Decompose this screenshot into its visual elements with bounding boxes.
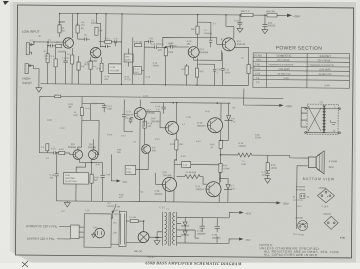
svg-text:EXPORT 220 V PNL: EXPORT 220 V PNL <box>27 237 55 241</box>
svg-text:10/25: 10/25 <box>224 72 230 74</box>
transformer T2 power output <box>305 100 341 134</box>
svg-text:C-2-2: C-2-2 <box>159 207 165 209</box>
svg-text:10/25: 10/25 <box>126 172 132 174</box>
diode D8 <box>225 103 233 128</box>
wire tone to Q3 <box>144 42 166 48</box>
wire input node <box>34 42 59 46</box>
diode D9 <box>219 178 232 202</box>
capacitor C32 .022 <box>265 171 269 179</box>
wire ground bus power amp <box>56 167 133 202</box>
capacitor C16b 250 <box>54 153 59 201</box>
svg-text:R-46 4Ω6: R-46 4Ω6 <box>187 172 197 174</box>
svg-text:20-380 V DC: 20-380 V DC <box>318 74 332 76</box>
svg-text:C-3B: C-3B <box>154 191 159 193</box>
ground <box>154 232 162 245</box>
wire +35V feed from preamp rail <box>244 89 263 106</box>
fuse F1 <box>126 220 130 222</box>
svg-text:500/35: 500/35 <box>91 23 98 25</box>
svg-text:INPUT: INPUT <box>22 81 32 85</box>
capacitor C19 hydra <box>197 22 212 47</box>
capacitor C35 2000/50 <box>214 218 219 244</box>
svg-text:.47/2W: .47/2W <box>223 168 231 170</box>
svg-text:B): B) <box>307 197 309 199</box>
resistor R50 factory selected box <box>64 172 89 184</box>
resistor R30 <box>196 26 199 34</box>
resistor R16 <box>100 63 103 71</box>
capacitor C1Z 10/25 box <box>125 165 136 174</box>
svg-text:22/2W: 22/2W <box>255 137 261 139</box>
svg-text:94R: 94R <box>74 115 78 117</box>
transistor Q3 2N4058 <box>188 47 199 58</box>
resistor R48 <box>46 144 49 151</box>
svg-text:R-47: R-47 <box>223 165 229 167</box>
resistor R37 1.5 in rail <box>241 13 253 17</box>
resistor R38 5W in rail <box>267 14 277 17</box>
svg-text:68K: 68K <box>68 107 72 109</box>
transistor Q6 2N5088 <box>88 150 98 160</box>
wire -35V bottom rail <box>133 120 277 203</box>
svg-text:2N6254: 2N6254 <box>197 125 206 128</box>
svg-text:650B BASS AMPLIFIER SCHEMATIC: 650B BASS AMPLIFIER SCHEMATIC DIAGRAM <box>145 260 241 266</box>
svg-text:C-20: C-20 <box>216 69 222 71</box>
resistor R42 .47 <box>219 140 222 148</box>
svg-text:TIP-36B: TIP-36B <box>163 174 172 177</box>
svg-text:(FACTORY: (FACTORY <box>65 177 76 180</box>
wire +35V top supply rail <box>60 13 287 15</box>
resistor R41 current source <box>78 97 104 150</box>
svg-text:(22A QMP): (22A QMP) <box>320 68 332 71</box>
capacitor C6 <box>63 52 68 84</box>
svg-text:22Ω/2W: 22Ω/2W <box>239 146 247 148</box>
wire supply outputs <box>229 212 239 218</box>
resistor R31 <box>185 66 188 75</box>
svg-text:2N5296: 2N5296 <box>151 120 160 123</box>
svg-text:R-17 50K: R-17 50K <box>134 42 143 44</box>
svg-text:T-40A/9NRG-2.5 9/4W/2T9L: T-40A/9NRG-2.5 9/4W/2T9L <box>268 63 295 66</box>
svg-text:(25A QMP): (25A QMP) <box>279 68 291 71</box>
capacitor C24 500/35 <box>262 15 267 30</box>
wire +35V to transformer <box>262 104 279 106</box>
resistor R4 1M <box>58 25 61 33</box>
wire Q1 collector up <box>72 14 77 39</box>
svg-text:1N34HS: 1N34HS <box>204 33 213 35</box>
registration arrow top-left <box>3 1 9 5</box>
svg-text:C-10: C-10 <box>51 148 57 150</box>
svg-text:-35V: -35V <box>245 238 251 242</box>
svg-text:+10 (2A): +10 (2A) <box>106 205 114 208</box>
bridge rectifier D1 <box>138 232 149 243</box>
connector panel P2 <box>71 225 80 239</box>
resistor R16b 680 <box>143 121 146 128</box>
resistor R2 1M <box>46 54 49 63</box>
svg-text:BOTTOM VIEW: BOTTOM VIEW <box>303 177 335 181</box>
svg-text:VOLUME: VOLUME <box>110 70 120 72</box>
svg-text:MAX: MAX <box>125 55 130 58</box>
resistor R19 1K <box>59 151 65 154</box>
svg-text:+35V: +35V <box>285 104 292 108</box>
svg-text:20-180 V AC: 20-180 V AC <box>277 73 290 76</box>
resistor R40 150 <box>175 140 178 150</box>
svg-text:GWT: GWT <box>114 214 120 216</box>
wire Q4 output right <box>235 47 249 64</box>
capacitor C24b 0.1 <box>161 103 165 114</box>
transformer T2 power <box>162 209 176 246</box>
svg-text:680/4R0: 680/4R0 <box>154 194 163 196</box>
svg-text:2N6254: 2N6254 <box>195 188 204 191</box>
svg-text:T-90: T-90 <box>255 64 260 66</box>
capacitor C21 <box>221 52 225 85</box>
svg-text:2N5088: 2N5088 <box>58 50 67 53</box>
voltage selector block <box>119 211 126 246</box>
transistor Q4 2N4248 <box>222 38 235 51</box>
value label scatter <box>43 20 262 215</box>
wire panel leads <box>57 226 71 239</box>
svg-text:1M: 1M <box>61 31 64 33</box>
wire Q2 collector <box>96 14 106 48</box>
capacitor C1Y 100/25 <box>129 118 133 124</box>
capacitor C34 2000/50 <box>200 218 205 233</box>
svg-text:1M: 1M <box>45 58 48 60</box>
svg-text:PT.NO: PT.NO <box>254 53 262 57</box>
wire plug to switch <box>111 212 119 244</box>
resistor R33 <box>247 65 250 74</box>
wire Q6 base network <box>98 120 99 155</box>
svg-text:(C-21): (C-21) <box>124 79 130 81</box>
ground <box>262 30 268 34</box>
wire Q3 emitter to Q4 base <box>194 38 222 64</box>
resistor R28 1500 <box>164 48 167 56</box>
svg-text:SPK: SPK <box>329 165 334 169</box>
resistor R17 50K <box>135 44 142 47</box>
svg-text:R3 68K: R3 68K <box>56 42 64 44</box>
resistor R10 <box>89 61 92 69</box>
transistor Q7 TIP35 <box>134 108 146 120</box>
svg-text:2-AG: 2-AG <box>283 77 289 80</box>
svg-text:DOMESTIC 120 V PNL: DOMESTIC 120 V PNL <box>26 224 58 228</box>
capacitor C8 <box>106 45 111 48</box>
resistor R3 <box>56 44 62 47</box>
svg-text:2N4058: 2N4058 <box>200 51 209 54</box>
wire speaker return <box>296 166 308 229</box>
resistor R8 <box>77 62 80 70</box>
svg-text:1M: 1M <box>58 24 61 26</box>
resistor R52 820 <box>90 174 93 183</box>
svg-text:A-10: A-10 <box>255 68 261 71</box>
svg-text:400 /3C: 400 /3C <box>134 250 143 253</box>
svg-text:+35V: +35V <box>122 181 128 184</box>
resistor R34 10 ohm <box>267 155 269 162</box>
svg-text:2N4248: 2N4248 <box>237 43 246 46</box>
svg-text:C-35: C-35 <box>212 235 218 237</box>
wire Q3 collector up <box>196 15 198 47</box>
svg-text:+40 /3C: +40 /3C <box>147 257 155 259</box>
svg-text:R-12: R-12 <box>105 38 111 40</box>
diode D3 <box>181 226 189 243</box>
svg-text:R-40: R-40 <box>170 144 176 146</box>
wire rail drop to Q1 <box>59 13 65 37</box>
svg-text:100/470: 100/470 <box>169 45 177 47</box>
svg-text:BASS: BASS <box>125 58 131 61</box>
transistor Q9 driver lower <box>162 177 176 191</box>
capacitor C10 47 <box>54 151 59 154</box>
diode D2 <box>181 217 189 226</box>
svg-text:TIP35B: TIP35B <box>147 112 155 115</box>
svg-text:R-1Y: R-1Y <box>129 119 134 121</box>
svg-text:(OFF): (OFF) <box>114 210 120 212</box>
svg-text:S-2-2: S-2-2 <box>293 234 299 236</box>
speaker SP1 <box>308 157 316 168</box>
svg-text:F-1 3A: F-1 3A <box>129 216 136 219</box>
svg-text:EXPORT: EXPORT <box>320 54 332 58</box>
svg-text:-35V: -35V <box>282 202 288 206</box>
resistor R37b in amp rail <box>55 95 61 98</box>
wire bias arrow +35V <box>111 154 117 181</box>
svg-text:+35V: +35V <box>293 14 300 18</box>
svg-text:C-21: C-21 <box>225 69 231 71</box>
potentiometer R18 volume <box>109 64 122 74</box>
resistor R7 <box>71 55 74 64</box>
potentiometer R23 mid <box>133 67 141 75</box>
resistor R44 270 <box>219 163 222 172</box>
wire output node <box>220 128 228 182</box>
wire rail drops tone area <box>99 14 122 64</box>
wire signal feed from preamp <box>39 152 53 154</box>
svg-text:LOW INPUT: LOW INPUT <box>22 30 40 34</box>
svg-text:2N6254: 2N6254 <box>323 214 331 216</box>
jack J1 low input <box>26 43 29 55</box>
svg-text:2N5088: 2N5088 <box>88 147 97 149</box>
svg-text:C-23: C-23 <box>234 20 240 22</box>
transistor Q2 2N5088 <box>90 47 100 57</box>
svg-text:E-30: E-30 <box>299 234 304 236</box>
capacitor C5 <box>77 37 89 40</box>
capacitor C9 <box>115 40 117 43</box>
svg-text:C-15 100/470: C-15 100/470 <box>151 44 164 46</box>
capacitor C20 <box>197 64 216 85</box>
wire Q4 collector up <box>226 15 234 39</box>
svg-text:C-7B: C-7B <box>105 174 110 176</box>
svg-text:2-0-3: 2-0-3 <box>296 206 302 208</box>
svg-text:10ΩW: 10ΩW <box>271 168 278 170</box>
svg-text:+35V: +35V <box>245 211 251 215</box>
svg-text:(C-1 B-1): (C-1 B-1) <box>293 200 302 202</box>
svg-text:120 V 60HzL: 120 V 60HzL <box>277 60 291 62</box>
capacitor C15 100/470 <box>151 45 161 48</box>
svg-text:T-40A/9NRG-2.5 9/4W/2T9L: T-40A/9NRG-2.5 9/4W/2T9L <box>308 64 335 67</box>
svg-text:C-28: C-28 <box>255 73 261 75</box>
transistor Q11 2N6254 <box>206 182 221 197</box>
potentiometer R21 max bass <box>124 54 133 62</box>
svg-text:R-42: R-42 <box>210 144 216 146</box>
svg-text:C-1Y: C-1Y <box>121 135 126 137</box>
svg-text:ON: ON <box>117 206 121 208</box>
svg-text:C-1Z: C-1Z <box>126 168 131 170</box>
svg-text:DOMESTIC: DOMESTIC <box>277 54 292 58</box>
svg-text:100/25: 100/25 <box>153 65 160 67</box>
svg-text:SELECTED): SELECTED) <box>65 181 77 183</box>
capacitor C16 <box>149 40 154 43</box>
svg-text:2000/50: 2000/50 <box>212 238 221 240</box>
svg-text:POWER SECTION: POWER SECTION <box>276 45 323 51</box>
plug P1 enclosure <box>84 214 111 248</box>
svg-text:GB-1: GB-1 <box>256 60 262 62</box>
plug P1 <box>95 228 105 238</box>
capacitor C18 <box>166 45 189 48</box>
resistor R32 <box>195 68 198 77</box>
svg-text:250/25: 250/25 <box>126 114 133 116</box>
ground <box>64 201 70 207</box>
svg-text:68K: 68K <box>187 44 191 46</box>
svg-text:C-1B: C-1B <box>110 67 116 69</box>
svg-text:2-AG: 2-AG <box>324 84 330 87</box>
svg-text:R-34: R-34 <box>271 165 277 167</box>
jack J2 high input <box>25 64 28 74</box>
ground <box>237 28 243 32</box>
svg-text:C-24: C-24 <box>155 106 161 108</box>
transistor Q10 2N6254 <box>207 118 222 133</box>
svg-text:C-17: C-17 <box>126 111 132 113</box>
svg-text:2000/50: 2000/50 <box>197 234 206 236</box>
svg-text:C-1W: C-1W <box>107 134 112 136</box>
wire transformer T2 primary stubs <box>301 108 307 128</box>
svg-text:(.1): (.1) <box>156 109 160 111</box>
svg-text:ALL CAPACITORS ARE IN MFD.: ALL CAPACITORS ARE IN MFD. <box>264 253 319 257</box>
svg-text:E-30: E-30 <box>340 238 345 240</box>
transistor Q12 VAS <box>142 145 151 154</box>
wire secondary taps <box>177 217 230 243</box>
POWER SECTION table grid <box>253 53 350 88</box>
svg-text:GMT: GMT <box>134 72 139 74</box>
svg-text:C-1B-3: C-1B-3 <box>321 206 329 208</box>
svg-text:500/35: 500/35 <box>268 24 276 27</box>
capacitor C1 <box>51 44 56 47</box>
svg-text:C-32: C-32 <box>262 172 268 174</box>
wire bridge to transformer <box>126 237 162 243</box>
resistor R12 <box>105 40 112 43</box>
svg-text:7-5: 7-5 <box>319 100 323 104</box>
svg-text:HIGH: HIGH <box>22 77 31 81</box>
capacitor C14 1000 <box>102 104 106 113</box>
capacitor C23 500/35 <box>237 15 242 29</box>
svg-text:R-19: R-19 <box>59 149 65 151</box>
svg-text:R38 5W: R38 5W <box>266 10 275 13</box>
resistor R6 <box>54 59 57 67</box>
capacitor T-22 box <box>182 161 191 167</box>
wire power amp top rail <box>39 96 283 155</box>
capacitor C17 250/25 <box>122 99 133 131</box>
svg-text:220 V 50HzL: 220 V 50HzL <box>318 60 332 62</box>
ground <box>92 232 96 237</box>
wire ground rail input stage <box>40 84 248 86</box>
wire power amp mid rail <box>150 101 230 104</box>
transistor Q1 2N5088 <box>63 38 73 48</box>
ground <box>265 179 271 184</box>
svg-text:1500: 1500 <box>168 52 174 54</box>
ground <box>36 74 42 93</box>
svg-text:2N5088: 2N5088 <box>68 147 77 149</box>
resistor R5 <box>76 25 79 33</box>
resistor R9 <box>95 27 98 35</box>
registration cross bottom-left <box>22 261 28 267</box>
svg-text:C-34: C-34 <box>197 231 203 233</box>
switch S1 on/off <box>113 204 116 212</box>
capacitor C7b 10/25 <box>91 163 105 202</box>
transistor Q8 driver 2N5296 <box>165 121 178 134</box>
resistor R46 4R6 zigzag <box>177 174 207 184</box>
wire diff pair emitters join <box>80 139 94 167</box>
svg-text:4 OHM: 4 OHM <box>329 159 337 163</box>
svg-text:R37 1.5: R37 1.5 <box>241 10 250 13</box>
transistor Q5 2N5088 <box>73 150 83 160</box>
